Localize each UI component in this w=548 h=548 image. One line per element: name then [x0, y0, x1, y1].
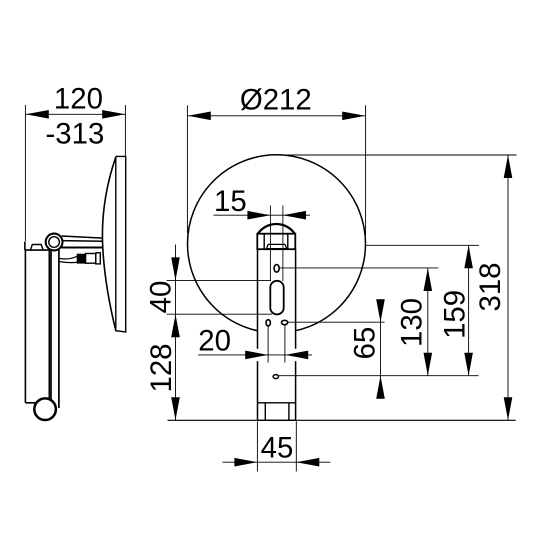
arm lower bar — [61, 246, 103, 248]
bottom bracket — [258, 403, 296, 421]
svg-text:40: 40 — [145, 281, 178, 314]
cable to mirror — [59, 256, 77, 262]
knob collar — [257, 234, 295, 250]
ref line pivot centre — [366, 244, 479, 246]
svg-text:318: 318 — [474, 262, 507, 311]
dim 65 arrows — [376, 299, 385, 399]
dim 65 line — [380, 299, 382, 399]
mirror convex lens curve — [102, 157, 115, 331]
screw head on wall plate — [31, 245, 44, 251]
svg-text:45: 45 — [261, 432, 294, 465]
svg-text:15: 15 — [214, 185, 247, 218]
dim 128 bottom arrow — [171, 397, 180, 420]
ref line slot top — [167, 279, 271, 281]
svg-text:65: 65 — [349, 327, 382, 360]
dim 15 line — [214, 214, 311, 216]
collar inner lines — [264, 234, 288, 250]
dim 318 line — [507, 155, 509, 420]
arm column — [51, 249, 59, 408]
DIMENSIONS — [25, 83, 516, 472]
dim 45 line — [223, 461, 331, 463]
dim 120 arrows — [26, 110, 125, 119]
ref line slot bottom — [167, 313, 272, 315]
dim 20 arrows — [245, 351, 308, 360]
FRONT VIEW — [188, 155, 366, 421]
slot channel lines / dim 15 extension lines — [270, 206, 283, 282]
svg-text:130: 130 — [396, 298, 429, 347]
cable connector black plug — [77, 254, 85, 263]
lower right hole — [282, 320, 288, 324]
dim 40-128 line — [175, 245, 177, 421]
ref line bottom — [168, 419, 516, 421]
wall plate outline — [25, 242, 49, 403]
mirror body side profile — [116, 156, 126, 332]
svg-text:20: 20 — [198, 325, 231, 358]
dim 159 arrows — [464, 245, 473, 375]
dim 20 extension lines from holes — [268, 325, 285, 362]
dim 20 line — [198, 354, 312, 356]
dim 20 arrow gaps over stem edges — [256, 349, 258, 361]
dim 159 line — [468, 245, 470, 375]
leader lower right hole — [288, 321, 385, 323]
svg-text:Ø212: Ø212 — [240, 84, 312, 117]
dim 120 line — [26, 113, 125, 115]
svg-text:120: 120 — [54, 83, 103, 116]
mirror circle — [188, 155, 366, 333]
dim 318 arrows — [504, 155, 513, 420]
dim 120 extension lines — [25, 105, 125, 241]
svg-text:-313: -313 — [45, 117, 104, 150]
svg-text:128: 128 — [145, 343, 178, 392]
cable connector end cap — [96, 253, 101, 264]
dim 40 arrows — [171, 257, 180, 337]
lower left hole — [266, 320, 270, 326]
dim 130 arrows — [424, 268, 433, 376]
top hole — [274, 265, 279, 273]
bottom roller circle — [34, 398, 56, 420]
SIDE VIEW — [25, 156, 126, 420]
svg-text:159: 159 — [438, 290, 471, 339]
dim 45 arrows — [234, 458, 319, 467]
dim 130 line — [427, 268, 429, 376]
dim D212 arrows — [188, 112, 365, 121]
knob dome — [258, 224, 295, 234]
dim 45 extension lines — [257, 421, 296, 471]
leader bottom hole — [279, 375, 479, 377]
pivot joint circle — [46, 234, 63, 251]
stem body — [258, 249, 296, 403]
oblong slot — [270, 281, 283, 315]
ref line circle top — [277, 154, 517, 156]
dim D212 extension lines — [187, 105, 365, 235]
leader top hole — [279, 267, 438, 269]
arm upper bar — [61, 236, 103, 241]
cable connector barrel — [86, 254, 96, 264]
dim D212 line — [187, 115, 365, 117]
bottom small hole — [273, 375, 278, 379]
collar inner latch — [267, 244, 287, 248]
dim 15 arrows — [247, 211, 306, 220]
